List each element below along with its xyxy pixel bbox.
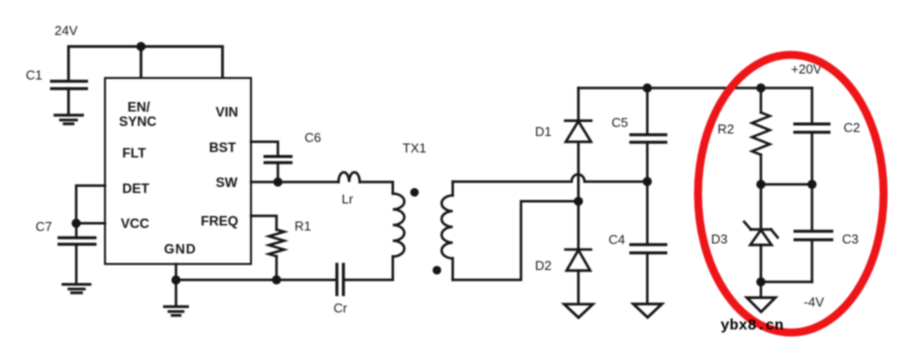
IC U1 box (105, 78, 251, 264)
svg-text:C4: C4 (609, 232, 626, 247)
ground (below C4) (633, 304, 662, 317)
wire secondary bottom to node B (453, 201, 579, 280)
junction dot on 24V rail (136, 42, 145, 51)
capacitor Cr (337, 264, 344, 294)
capacitor C4 (631, 182, 666, 304)
wire DET loop to VCC node (76, 186, 105, 224)
svg-text:C7: C7 (36, 219, 53, 234)
svg-text:C5: C5 (612, 115, 629, 130)
diode D1 (565, 88, 591, 201)
junction dot R2 bottom (756, 180, 765, 189)
resistor R2 (752, 88, 770, 184)
svg-text:ybx8.cn: ybx8.cn (721, 318, 784, 335)
svg-text:-4V: -4V (804, 295, 825, 310)
junction dot R2 top (756, 83, 765, 92)
primary phase dot (410, 188, 419, 197)
junction dot R1 bottom (272, 275, 281, 284)
wire VCC (76, 222, 105, 225)
secondary phase dot (433, 266, 442, 275)
resistor R1 (251, 216, 284, 280)
junction dot C5 top (643, 83, 652, 92)
wire mid node R2-C2 (761, 183, 812, 186)
ground (below GND pin) (165, 280, 188, 315)
svg-text:FLT: FLT (122, 146, 146, 161)
svg-text:BST: BST (209, 140, 237, 155)
svg-text:C6: C6 (305, 130, 322, 145)
svg-text:EN/: EN/ (127, 100, 150, 115)
junction dot node A / C5 bottom (643, 177, 652, 186)
junction dot GND (171, 275, 180, 284)
inductor Lr (339, 172, 360, 182)
junction dot C2 bottom (807, 180, 816, 189)
svg-text:Lr: Lr (342, 191, 354, 206)
ground (below C1) (55, 115, 83, 124)
svg-text:R2: R2 (718, 122, 735, 137)
svg-text:VCC: VCC (121, 216, 150, 231)
svg-text:24V: 24V (55, 23, 78, 38)
zener diode D3 (744, 184, 777, 282)
transformer TX1 primary winding (393, 194, 405, 257)
svg-text:VIN: VIN (216, 104, 239, 119)
capacitor C6 (265, 157, 291, 183)
wire C3 bottom to D3 bottom (761, 281, 812, 284)
svg-text:D3: D3 (711, 232, 728, 247)
svg-text:TX1: TX1 (403, 140, 427, 155)
wire GND pin to ground rail (175, 264, 178, 280)
svg-text:GND: GND (164, 242, 196, 257)
ground (below C7) (63, 284, 90, 292)
wire +20V top rail (578, 87, 812, 90)
capacitor C1 (52, 81, 87, 114)
capacitor C2 (795, 88, 829, 184)
svg-text:Cr: Cr (334, 300, 348, 315)
ground (below D3) (747, 282, 776, 312)
junction dot VCC/C7 (72, 219, 81, 228)
svg-text:D1: D1 (535, 124, 552, 139)
capacitor C3 (795, 184, 832, 282)
ground (below D2) (564, 304, 593, 317)
svg-text:D2: D2 (535, 258, 552, 273)
transformer TX1 secondary winding (442, 182, 453, 280)
wire EN/SYNC drop from rail (140, 47, 143, 79)
junction dot D3 bottom (756, 277, 765, 286)
wire SW line (251, 181, 339, 184)
svg-text:FREQ: FREQ (201, 213, 239, 228)
junction dot node B (574, 197, 583, 206)
wire 24V input rail (69, 47, 223, 82)
junction dot C6/SW (273, 177, 282, 186)
wire secondary top to node A (with hop) (453, 174, 648, 181)
red highlight ellipse (698, 55, 884, 333)
capacitor C5 (631, 88, 666, 182)
svg-text:DET: DET (122, 181, 150, 196)
wire primary bottom rail (176, 279, 337, 282)
svg-text:C1: C1 (26, 68, 43, 83)
capacitor C7 (59, 223, 95, 284)
svg-text:C3: C3 (842, 232, 859, 247)
svg-text:R1: R1 (295, 218, 312, 233)
svg-text:C2: C2 (844, 120, 861, 135)
diode D2 (565, 201, 591, 304)
wire Lr to transformer primary (360, 182, 393, 194)
wire BST to C6 (251, 142, 278, 156)
svg-text:SYNC: SYNC (119, 114, 157, 129)
svg-text:SW: SW (216, 175, 238, 190)
